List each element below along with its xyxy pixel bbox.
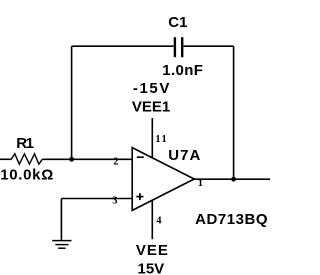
wire: non-inverting input: [61, 198, 132, 200]
wire: top horizontal to capacitor: [72, 45, 174, 47]
svg-text:VEE1: VEE1: [132, 99, 170, 116]
node junction at output: [231, 177, 236, 182]
wire: resistor to op-amp inverting input: [42, 158, 132, 160]
svg-text:C1: C1: [168, 14, 187, 31]
svg-text:VEE: VEE: [136, 242, 169, 259]
op-amp plus sign: [136, 193, 143, 200]
svg-text:1.0nF: 1.0nF: [162, 62, 203, 79]
wire: vertical feedback right: [233, 46, 235, 179]
svg-text:10.0kΩ: 10.0kΩ: [0, 166, 54, 183]
svg-text:1: 1: [198, 178, 203, 189]
svg-text:U7A: U7A: [168, 147, 201, 164]
svg-text:2: 2: [113, 157, 118, 168]
svg-text:15V: 15V: [138, 260, 165, 275]
ground: [52, 241, 71, 249]
svg-text:4: 4: [156, 216, 162, 227]
wire: to ground: [60, 199, 62, 241]
svg-text:11: 11: [155, 134, 168, 145]
wire: pin 4 to VEE supply: [151, 200, 153, 239]
op-amp minus sign: [137, 156, 144, 158]
svg-text:R1: R1: [16, 135, 33, 152]
node junction at R1/feedback: [69, 157, 74, 162]
wire: resistor left lead: [0, 158, 12, 160]
wire: vertical feedback left: [71, 46, 73, 159]
wire: VEE1 supply to pin 11: [151, 118, 153, 158]
op-amp U7A: [132, 148, 194, 211]
wire: output: [194, 178, 270, 180]
resistor R1: [11, 154, 42, 164]
wire: capacitor to right vertical: [183, 45, 233, 47]
capacitor C1: [175, 37, 182, 57]
svg-text:AD713BQ: AD713BQ: [195, 211, 268, 228]
svg-text:-15V: -15V: [133, 80, 171, 97]
svg-text:3: 3: [112, 196, 117, 207]
